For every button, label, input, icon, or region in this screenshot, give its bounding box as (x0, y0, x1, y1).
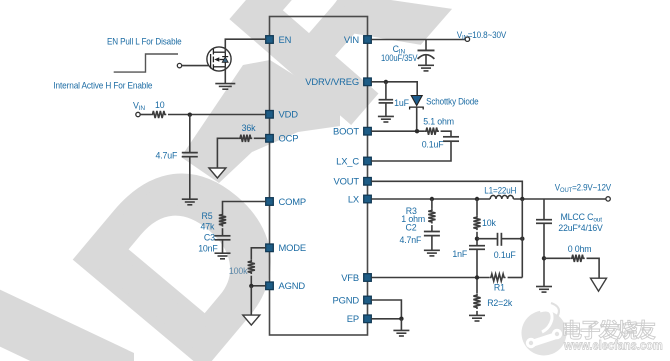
elecfans chinese text (564, 320, 655, 339)
wire VIN pin to input terminal (371, 39, 465, 41)
EN internal annotation text (53, 81, 152, 91)
junction VFB node (475, 275, 479, 279)
svg-text:LX: LX (348, 193, 360, 204)
wire R-10 to VDD pin (168, 114, 266, 116)
svg-text:100k: 100k (229, 266, 248, 276)
resistor R5 (219, 213, 226, 227)
capacitor MLCC label (561, 212, 603, 224)
wire R-0ohm to ground (587, 258, 600, 278)
IC U1 body (270, 17, 368, 336)
watermark letter R (191, 0, 481, 160)
wire Q1 drain to EN pin (225, 39, 265, 52)
capacitor 1uF (379, 100, 394, 103)
wire C-0.1uF to vout branch (502, 238, 522, 240)
watermark letter fragment bottom-left (0, 284, 134, 361)
pin VOUT (334, 176, 372, 187)
resistor R-10k (473, 216, 480, 231)
svg-text:0 0hm: 0 0hm (568, 244, 592, 254)
capacitor 1uF label (394, 98, 409, 108)
capacitor 4.7uF (182, 153, 198, 157)
capacitor 0.1uF feedback label (494, 250, 517, 260)
ground PGND (393, 330, 409, 336)
wire C-0.1uF to LX_C pin (371, 141, 451, 161)
capacitor CIN plate (418, 49, 435, 51)
resistor R-10 (151, 111, 166, 118)
wire R5 to C3 (222, 228, 224, 235)
svg-text:0.1uF: 0.1uF (422, 140, 445, 150)
svg-text:5.1 ohm: 5.1 ohm (423, 117, 454, 127)
resistor R2 label (487, 298, 513, 308)
resistor R1 label (494, 283, 505, 293)
capacitor MLCC value (558, 223, 603, 233)
capacitor C2 label (406, 223, 417, 233)
ground C3 (215, 253, 231, 259)
resistor 5.1 ohm label (423, 117, 454, 127)
diode D1 schottky (410, 96, 424, 110)
capacitor CIN value (381, 53, 418, 63)
wire BOOT pin to R-5.1 (371, 130, 424, 132)
ground C2 (424, 250, 440, 256)
pin PGND (333, 294, 372, 305)
wire LX node to R-10k (476, 199, 478, 216)
EN step waveform (114, 54, 178, 72)
svg-text:4.7nF: 4.7nF (400, 235, 423, 245)
junction BOOT node (415, 129, 419, 133)
VOUT voltage label (555, 182, 611, 194)
resistor R5 label (202, 211, 213, 221)
svg-text:R5: R5 (202, 211, 213, 221)
svg-text:R1: R1 (494, 283, 505, 293)
svg-text:22uF*4/16V: 22uF*4/16V (558, 223, 603, 233)
wire COMP pin to R5 (223, 202, 266, 214)
resistor R-0ohm (570, 255, 584, 262)
svg-text:Schottky Diode: Schottky Diode (426, 96, 479, 106)
wire vout branch vertical (521, 199, 523, 278)
VDD input terminal (136, 112, 140, 116)
svg-text:10k: 10k (482, 218, 496, 228)
wire PGND pin right (371, 300, 401, 319)
svg-text:C3: C3 (204, 233, 215, 243)
wire VIN rail down to CIN (425, 40, 427, 51)
pin BOOT (333, 126, 371, 137)
inductor L1 label (484, 186, 516, 196)
wire CIN to ground (425, 56, 427, 66)
svg-text:EP: EP (347, 313, 359, 324)
svg-text:100uF/35V: 100uF/35V (381, 53, 418, 63)
wire L1 to output terminal (513, 198, 606, 200)
svg-text:OCP: OCP (279, 133, 299, 144)
capacitor C3 label (204, 233, 215, 243)
wire VDD node down to C-4.7uF (189, 115, 191, 153)
junction fb mid node (475, 237, 479, 241)
svg-text:VFB: VFB (341, 272, 359, 283)
svg-text:10nF: 10nF (198, 244, 218, 254)
capacitor C3 (215, 236, 231, 240)
junction AGND node (249, 284, 253, 288)
pin LX_C (336, 155, 371, 166)
wire OCP pin to R-36k (254, 137, 266, 139)
svg-text:R2=2k: R2=2k (487, 298, 513, 308)
output terminal (606, 197, 610, 201)
capacitor C2 value (400, 235, 423, 245)
VIN rail terminal (465, 37, 469, 41)
wire VFB pin to R1 (371, 277, 489, 279)
ground Q1 source (215, 84, 235, 90)
junction PGND-EP node (399, 317, 403, 321)
junction VDRV node (384, 80, 388, 84)
capacitor C2 (424, 232, 440, 236)
resistor R5 value 47k (201, 222, 215, 232)
wire output node to MLCC (543, 199, 545, 220)
wire fb node to C-0.1uF (477, 238, 497, 240)
ground CIN (418, 65, 434, 71)
resistor value 10 label (155, 100, 165, 110)
wire C-1uF to ground (385, 103, 387, 116)
svg-text:VOUT: VOUT (334, 176, 360, 187)
wire C-4.7uF to ground (189, 157, 191, 199)
wire MLCC to ground (543, 224, 545, 287)
pin VFB (341, 272, 371, 283)
elecfans url text (563, 338, 663, 353)
wire R-5.1 to C-0.1uF (441, 131, 451, 136)
schottky diode label (426, 96, 479, 106)
junction VOUT-output node (520, 197, 524, 201)
wire R-100k to AGND node (250, 276, 252, 286)
svg-text:COMP: COMP (279, 196, 307, 207)
wire VDRV node down to C-1uF (385, 82, 387, 100)
inductor L1 (490, 195, 513, 199)
svg-text:4.7uF: 4.7uF (156, 151, 179, 161)
svg-text:www.elecfans.com: www.elecfans.com (563, 338, 663, 353)
transistor Q1 internals (211, 49, 229, 70)
svg-text:0.1uF: 0.1uF (494, 250, 517, 260)
svg-text:47k: 47k (201, 222, 215, 232)
pin LX (348, 193, 371, 204)
wire MLCC node to R-0ohm (544, 257, 570, 259)
svg-text:L1=22uH: L1=22uH (484, 186, 516, 196)
capacitor 0.1uF boot (443, 137, 459, 141)
resistor R-36k (239, 135, 253, 142)
resistor R-100k (248, 260, 255, 274)
wire Q1 source to ground (224, 67, 226, 84)
wire C2 to ground (431, 236, 433, 250)
elecfans logo circle (522, 303, 567, 356)
svg-text:EN: EN (279, 34, 292, 45)
resistor R3 label (406, 206, 417, 216)
resistor 100k label (229, 266, 248, 276)
svg-text:MODE: MODE (279, 242, 307, 253)
svg-text:PGND: PGND (333, 294, 360, 305)
resistor R1 (489, 274, 505, 281)
capacitor 4.7uF label (156, 151, 179, 161)
wire EP pin right (371, 318, 401, 320)
ground OCP triangle (209, 168, 226, 178)
junction LX-10k node (475, 197, 479, 201)
pin MODE (266, 242, 306, 253)
resistor R2 (473, 294, 480, 309)
svg-text:AGND: AGND (279, 280, 306, 291)
pin EP (347, 313, 372, 324)
pin VIN (344, 34, 371, 45)
EN enable annotation text (107, 37, 182, 47)
wire AGND node to ground (250, 286, 252, 315)
pin COMP (266, 196, 306, 207)
transistor Q1 MOSFET body (207, 47, 231, 71)
capacitor 0.1uF boot label (422, 140, 445, 150)
capacitor MLCC (536, 220, 552, 224)
wire LX node to R3 (431, 199, 433, 209)
capacitor 0.1uF feedback (498, 233, 502, 246)
ground R2 (469, 315, 485, 321)
capacitor C3 value 10nF (198, 244, 218, 254)
wire R1 to vout branch (508, 277, 523, 279)
resistor R-5.1ohm (425, 128, 439, 135)
capacitor CIN label (393, 44, 406, 56)
wire C3 to ground (222, 240, 224, 253)
pin VDRV/VREG (305, 76, 371, 87)
EN input terminal (177, 63, 181, 67)
wire R3 to C2 (431, 225, 433, 231)
svg-text:EN Pull L For Disable: EN Pull L For Disable (107, 37, 182, 47)
resistor R3 (428, 209, 435, 224)
watermark letter D (30, 108, 341, 361)
pin OCP (266, 133, 299, 144)
VIN input voltage label (457, 30, 507, 42)
wire R-10k to fb node (476, 232, 478, 246)
svg-text:VDD: VDD (279, 109, 299, 120)
wire MODE pin to R-100k (251, 248, 265, 260)
svg-text:1nF: 1nF (452, 249, 467, 259)
wire 1nF to VFB node (476, 250, 478, 294)
pin EN (266, 34, 292, 45)
capacitor CIN curved plate (418, 55, 435, 59)
svg-text:10: 10 (155, 100, 165, 110)
svg-text:C2: C2 (406, 223, 417, 233)
pin VDD (266, 109, 299, 120)
watermark letter R stem fragment (181, 60, 340, 183)
wire VOUT pin to output node (371, 181, 522, 199)
wire EN terminal to Q1 gate (182, 65, 209, 67)
junction vout branch node (520, 237, 524, 241)
ground AGND triangle (243, 315, 260, 325)
wire AGND pin to node (251, 285, 265, 287)
svg-text:BOOT: BOOT (333, 126, 359, 137)
junction MLCC-0ohm node (542, 256, 546, 260)
svg-text:Internal Active H For Enable: Internal Active H For Enable (53, 81, 152, 91)
wire schottky to BOOT node (416, 107, 418, 131)
wire VDRV pin to schottky (371, 82, 417, 96)
capacitor 1nF label (452, 249, 467, 259)
svg-text:36k: 36k (242, 123, 256, 133)
svg-text:LX_C: LX_C (336, 155, 359, 166)
junction LX-R3 node (430, 197, 434, 201)
wire LX pin to inductor (371, 198, 490, 200)
ground MLCC (536, 287, 552, 293)
ground C-1uF (378, 116, 394, 122)
resistor 36k label (242, 123, 256, 133)
wire R-36k to ground (217, 138, 238, 168)
ground C-4.7uF (182, 199, 198, 205)
svg-text:1uF: 1uF (394, 98, 409, 108)
capacitor 1nF (469, 246, 485, 250)
resistor 10k label (482, 218, 496, 228)
ground 0ohm triangle (591, 278, 607, 291)
pin AGND (266, 280, 306, 291)
resistor R3 value (401, 214, 425, 224)
junction VDD node (188, 113, 192, 117)
VIN input label (133, 101, 145, 113)
wire terminal to R-10 (140, 114, 151, 116)
resistor 0ohm label (568, 244, 592, 254)
wire PGND-EP to ground (400, 319, 402, 331)
svg-text:VDRV/VREG: VDRV/VREG (305, 76, 359, 87)
svg-text:VIN: VIN (344, 34, 359, 45)
wire R2 to ground (476, 311, 478, 315)
